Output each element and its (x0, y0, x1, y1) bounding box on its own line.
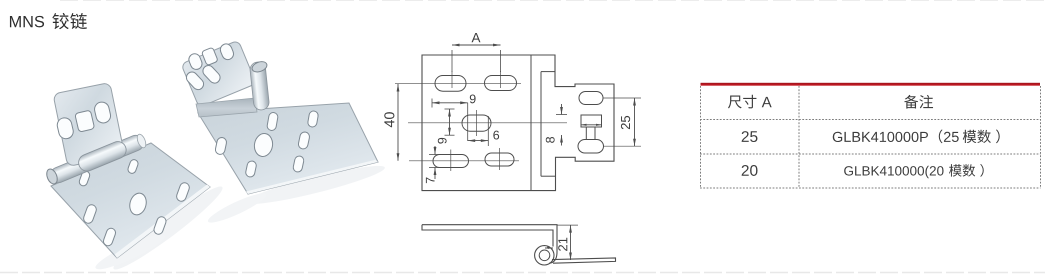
row1 (742, 131, 758, 142)
technical drawing front view (384, 33, 641, 191)
top dashed remnant (60, 0, 1045, 2)
header 尺寸 A (728, 95, 742, 108)
dim 25 (603, 97, 641, 99)
header 备注 (904, 95, 918, 109)
flap top oval (579, 92, 603, 105)
side view (422, 225, 616, 265)
dim A (451, 50, 453, 72)
table text (728, 95, 1000, 179)
slot top-left (435, 76, 466, 92)
slot middle (462, 115, 491, 131)
bottom dashed rule (0, 272, 1045, 274)
bottom leaf (552, 258, 616, 263)
red top border (701, 83, 1041, 86)
slot bottom-right (485, 153, 514, 166)
dim 40 (397, 84, 399, 161)
roll (535, 246, 554, 265)
slot bottom-left (433, 155, 469, 168)
slot top-right (485, 76, 517, 91)
dim 9 vertical (445, 108, 455, 110)
title (10, 16, 44, 28)
centerlines (395, 82, 521, 84)
right hinge photo (181, 40, 387, 227)
keyhole neck (585, 127, 587, 140)
table (700, 83, 1041, 188)
dim 9 horizontal (431, 99, 433, 108)
fold lines (530, 55, 532, 191)
keyhole square (581, 115, 602, 127)
dotted grid (700, 119, 1041, 121)
dim 7 (429, 154, 441, 156)
left hinge photo (45, 82, 228, 276)
dim 21 (557, 224, 578, 226)
dim 8 (556, 114, 567, 116)
keyhole bottom oval (578, 140, 604, 154)
row2 (742, 165, 758, 176)
dim 6 (487, 116, 489, 146)
